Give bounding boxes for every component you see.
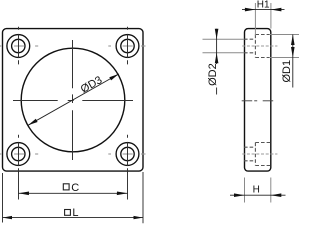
dimension line C	[19, 192, 128, 194]
centerline mid side view	[242, 100, 253, 102]
extension line H1 left	[254, 3, 256, 36]
hidden bore top: top line	[244, 38, 255, 40]
extension line C right	[127, 172, 129, 200]
centerline vertical hole bottom-right	[127, 135, 129, 138]
hole top-left bore	[12, 39, 25, 52]
front view plate outline	[3, 29, 144, 172]
hole bottom-left counterbore	[7, 143, 30, 166]
arrow D1 bottom	[291, 47, 295, 58]
extension line H right	[270, 178, 272, 203]
arrow L right	[134, 216, 144, 219]
hidden bore bottom: top line	[244, 146, 255, 148]
extension line C left	[18, 172, 20, 200]
hidden counterbore top: top line	[255, 34, 271, 36]
hidden counterbore bottom: bottom line	[255, 165, 271, 167]
centerline vertical hole bottom-left	[18, 135, 20, 138]
centerline bottom hole side view	[242, 153, 277, 155]
arrow H left	[234, 193, 245, 197]
arrow C right	[117, 192, 128, 196]
label C square symbol	[63, 184, 69, 190]
hole bottom-right counterbore	[116, 143, 139, 166]
extension line D1 lower	[269, 57, 299, 59]
arrow D3 lower-left	[28, 119, 38, 126]
centerline horizontal hole top-left	[0, 45, 1, 47]
extension line L right	[142, 172, 144, 223]
centerline horizontal hole top-right	[108, 45, 111, 47]
hidden counterbore top: bottom line	[255, 57, 271, 59]
extension line D2 lower	[203, 52, 245, 54]
arrow D2 bottom	[215, 53, 219, 64]
label L square symbol	[65, 210, 71, 216]
dimension line L	[3, 217, 144, 219]
arrow C left	[19, 192, 30, 196]
hidden counterbore bottom: top line	[255, 142, 271, 144]
extension line H1 right	[270, 3, 272, 29]
centerline vertical plate center	[72, 40, 74, 88]
dimension line H1	[242, 9, 285, 11]
centerline horizontal hole bottom-left	[0, 153, 1, 155]
side view outline	[245, 29, 271, 172]
dimension line D3 diagonal	[28, 74, 119, 125]
hidden bore top: bottom line	[244, 52, 255, 54]
svg-text:ØD1: ØD1	[281, 60, 293, 83]
arrow H1 right	[271, 8, 282, 12]
arrow H1 left	[245, 8, 256, 12]
hole top-right counterbore	[116, 35, 139, 58]
center bore circle D3	[21, 48, 125, 152]
arrow D3 upper-right	[109, 74, 119, 81]
hole bottom-left bore	[12, 147, 25, 160]
extension line L left	[2, 173, 4, 223]
hole top-left counterbore	[7, 35, 30, 58]
dimension line D2	[216, 29, 218, 64]
svg-text:H: H	[253, 185, 260, 196]
hidden counterbore bottom: depth line	[254, 143, 256, 166]
hidden counterbore top: depth line	[254, 35, 256, 58]
centerline top hole side view	[242, 45, 277, 47]
centerline horizontal plate center	[13, 100, 58, 102]
centerline vertical hole top-right	[127, 27, 129, 30]
svg-text:H1: H1	[257, 0, 270, 11]
svg-text:ØD2: ØD2	[207, 63, 219, 86]
svg-text:C: C	[71, 182, 79, 194]
centerline vertical hole top-left	[18, 27, 20, 30]
extension line D2 upper	[203, 38, 245, 40]
arrow D1 top	[291, 35, 295, 46]
hole bottom-right bore	[121, 147, 134, 160]
extension line H left	[244, 178, 246, 203]
arrow D2 top	[215, 29, 219, 40]
arrow H right	[271, 193, 282, 197]
hole top-right bore	[121, 39, 134, 52]
arrow L left	[3, 216, 13, 219]
dimension line H	[230, 194, 286, 196]
dimension line D2 lower segment	[216, 88, 218, 95]
extension line D1 upper	[269, 34, 299, 36]
centerline horizontal hole bottom-right	[108, 153, 111, 155]
svg-text:ØD3: ØD3	[79, 74, 105, 96]
dimension line D1	[292, 35, 294, 88]
svg-text:L: L	[72, 207, 78, 219]
hidden bore bottom: bottom line	[244, 160, 255, 162]
